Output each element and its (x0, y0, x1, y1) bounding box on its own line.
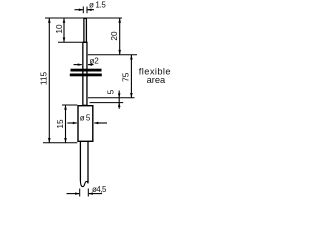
disc washer lower (70, 74, 102, 77)
svg-text:75: 75 (121, 72, 131, 82)
extension line for 10 (y=42.3) (58, 41, 82, 43)
dim dia 2 right arrow (88, 64, 94, 66)
dim dia 4.5 extension ticks (79, 189, 81, 197)
dim 10 line (63, 18, 65, 42)
dim dia 5 right arrow (94, 122, 107, 124)
dim 115 line (48, 18, 50, 143)
extension line body top left (y=105) (62, 104, 77, 106)
extension line flexible top (y=54.7) (88, 54, 137, 56)
extension line top (y=18, spans left dims to right dims) (45, 17, 122, 19)
probe tip rod dia 1.5 (84, 18, 87, 42)
svg-text:20: 20 (109, 31, 119, 41)
dim 75 line (130, 55, 132, 98)
disc washer upper (71, 69, 102, 72)
svg-text:10: 10 (54, 24, 64, 34)
svg-text:ø 1.5: ø 1.5 (89, 0, 106, 9)
svg-text:area: area (147, 75, 166, 85)
dim 20 line (119, 18, 121, 55)
svg-text:5: 5 (105, 89, 115, 94)
dim dia 5 left arrow (67, 122, 77, 124)
probe shaft rod dia 2 (83, 42, 87, 105)
dim dia 4.5 right arrow (89, 193, 102, 195)
svg-text:ø 5: ø 5 (80, 113, 91, 122)
svg-text:ø2: ø2 (90, 56, 100, 65)
svg-text:115: 115 (39, 72, 49, 86)
cable dia 4.5 right edge (87, 142, 89, 183)
dim dia 1.5 left arrow (75, 9, 83, 11)
dim dia 1.5 right arrow (87, 9, 94, 11)
extension line body neck (y=102.6) (90, 102, 124, 104)
svg-text:15: 15 (55, 119, 65, 129)
dim dia 2 left arrow (74, 64, 82, 66)
dim 5 line (118, 91, 120, 109)
cable break squiggle (80, 180, 88, 187)
body dia 5 (78, 106, 93, 142)
extension line flexible bottom (y=97.8) (88, 97, 135, 99)
dim 15 line (65, 105, 67, 143)
dim dia 1.5 extension ticks (82, 7, 84, 14)
dim dia 4.5 left arrow (67, 193, 80, 195)
cable dia 4.5 left edge (79, 142, 81, 181)
svg-text:ø4,5: ø4,5 (92, 185, 107, 194)
extension line body bottom (y=142.8) (43, 142, 77, 144)
